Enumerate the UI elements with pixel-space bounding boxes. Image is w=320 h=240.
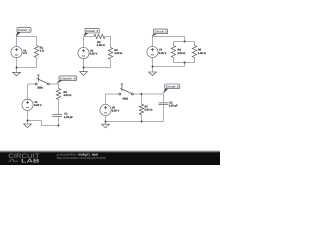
- resistor R7: [139, 94, 152, 122]
- svg-text:5.00 V: 5.00 V: [159, 52, 167, 55]
- wire top-left circuit2: [84, 36, 95, 38]
- node flag Circuit_4: [57, 76, 77, 83]
- wire drop from rail circuit3: [184, 63, 186, 67]
- svg-text:SW1: SW1: [123, 97, 129, 100]
- ground circuit4: [24, 121, 32, 128]
- svg-text:3.00 Ω: 3.00 Ω: [114, 52, 122, 55]
- svg-text:R4: R4: [178, 49, 182, 52]
- svg-text:1.00 µF: 1.00 µF: [64, 116, 73, 119]
- wire left-top circuit2: [83, 37, 85, 48]
- svg-text:Circuit_4: Circuit_4: [60, 77, 76, 80]
- junction top R7 circuit5: [141, 93, 143, 95]
- svg-text:SW2: SW2: [37, 87, 43, 90]
- svg-text:Circuit_2: Circuit_2: [86, 30, 99, 33]
- voltage source V4: [22, 99, 42, 110]
- switch SW1: [119, 84, 133, 101]
- junction circuit5 left: [105, 121, 107, 123]
- node flag Circuit_3: [152, 29, 168, 36]
- CircuitLab logo: [8, 153, 39, 165]
- svg-text:5.00 V: 5.00 V: [90, 52, 98, 55]
- ground circuit1: [13, 68, 21, 76]
- ground circuit2: [80, 68, 88, 76]
- wire bottom-right circuit4: [42, 125, 59, 127]
- junction circuit4 left: [27, 120, 29, 122]
- wire bottom circuit5: [106, 121, 164, 123]
- wire bottom circuit1: [17, 67, 37, 69]
- svg-text:3.00 Ω: 3.00 Ω: [198, 52, 206, 55]
- footer credit line 2: [57, 156, 107, 160]
- svg-text:6.00 Ω: 6.00 Ω: [145, 109, 153, 112]
- junction bottom R7 circuit5: [141, 121, 143, 123]
- footer credit line 1: [57, 152, 99, 156]
- capacitor C2: [159, 94, 179, 122]
- node flag Circuit_2: [84, 28, 100, 36]
- svg-text:http://circuitlab.com/fwkpy525: http://circuitlab.com/fwkpy525c95b: [57, 156, 107, 160]
- wire top rail circuit3: [174, 41, 195, 43]
- svg-text:1 Ω: 1 Ω: [40, 50, 44, 53]
- svg-text:Circuit_3: Circuit_3: [155, 31, 167, 34]
- wire left-top circuit1: [16, 37, 18, 47]
- svg-text:2.00 Ω: 2.00 Ω: [177, 52, 185, 55]
- node flag Circuit_5: [164, 84, 180, 93]
- footer bar: [0, 150, 220, 165]
- junction circuit1: [16, 67, 18, 69]
- voltage source V5: [100, 104, 120, 115]
- svg-text:Circuit_1: Circuit_1: [18, 29, 30, 32]
- wire drop to rail circuit3: [184, 37, 186, 42]
- wire bottom circuit3: [153, 66, 185, 68]
- junction circuit2: [83, 67, 85, 69]
- resistor R3: [108, 37, 122, 68]
- junction top rail circuit3: [184, 41, 186, 43]
- junction circuit4 right: [58, 125, 60, 127]
- wire to switch circuit5: [106, 93, 119, 95]
- voltage source V2: [78, 48, 98, 59]
- svg-text:2.00 Ω: 2.00 Ω: [97, 44, 105, 47]
- wire top circuit1: [17, 36, 37, 38]
- svg-text:LAB: LAB: [21, 159, 40, 165]
- ground circuit3: [149, 67, 157, 76]
- resistor R6: [56, 84, 71, 115]
- wire top circuit3: [153, 36, 185, 38]
- wire to switch circuit4: [28, 83, 36, 85]
- resistor R1: [34, 37, 44, 68]
- wire bottom rail circuit3: [174, 62, 195, 64]
- wire left-bottom circuit4: [27, 110, 29, 120]
- voltage source V1: [11, 47, 27, 58]
- svg-text:4.00 Ω: 4.00 Ω: [64, 94, 72, 97]
- wire bottom-left circuit4: [28, 120, 42, 122]
- wire left-bottom circuit1: [16, 58, 18, 68]
- svg-text:R5: R5: [198, 49, 202, 52]
- wire left-top circuit3: [152, 37, 154, 47]
- wire left-top circuit4: [27, 84, 29, 99]
- voltage source V3: [147, 46, 167, 57]
- svg-text:5.00 V: 5.00 V: [112, 110, 120, 113]
- wire left-bottom circuit5: [105, 116, 107, 122]
- switch SW2: [35, 75, 49, 90]
- svg-text:6 V: 6 V: [23, 52, 27, 55]
- wire left-bottom circuit2: [83, 59, 85, 68]
- junction circuit3: [152, 66, 154, 68]
- wire bottom circuit2: [84, 67, 111, 69]
- svg-text:Circuit_5: Circuit_5: [166, 86, 179, 89]
- wire left-bottom circuit3: [152, 58, 154, 67]
- capacitor C1: [52, 113, 73, 126]
- svg-text:1.00 µF: 1.00 µF: [169, 105, 178, 108]
- wire bottom step circuit4: [41, 121, 43, 126]
- resistor R4: [171, 42, 185, 63]
- junction bottom rail circuit3: [184, 62, 186, 64]
- wire top-right circuit2: [105, 36, 111, 38]
- ground circuit5: [102, 122, 110, 128]
- resistor R5: [192, 42, 205, 63]
- resistor R2: [94, 34, 105, 47]
- node flag Circuit_1: [16, 28, 31, 37]
- wire left-top circuit5: [105, 94, 107, 105]
- wire from switch circuit5: [133, 93, 163, 95]
- wire from switch circuit4: [49, 83, 58, 85]
- svg-text:5.00 V: 5.00 V: [34, 104, 42, 107]
